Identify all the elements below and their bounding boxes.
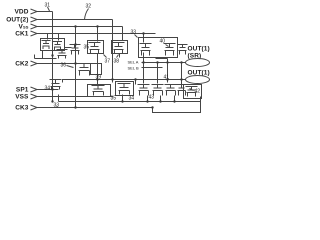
svg-text:35: 35 bbox=[111, 96, 117, 102]
transistor 37 enclosure bbox=[88, 41, 104, 54]
transistor 42 device bbox=[186, 87, 198, 97]
transistor box below SEL labels bbox=[116, 82, 134, 96]
wire stub box31 to node A bbox=[42, 51, 44, 59]
svg-text:33: 33 bbox=[54, 103, 60, 109]
label 39 bbox=[96, 75, 102, 81]
input chevron SP1 bbox=[31, 87, 38, 92]
leader 42 bbox=[190, 89, 194, 91]
wire SEL A line y62 bbox=[142, 62, 186, 64]
node SP1 label bbox=[16, 87, 29, 94]
wire stub x160 bbox=[160, 96, 162, 102]
wire vertical x75 bbox=[75, 27, 77, 108]
leader 31 bbox=[48, 7, 50, 11]
wire vertical x112 (OUT(2) column) bbox=[112, 20, 114, 83]
wire vertical x122 (Vss drop) bbox=[122, 27, 124, 41]
leader 40 bbox=[166, 45, 169, 47]
input chevron VDD bbox=[31, 9, 38, 14]
svg-text:VSS: VSS bbox=[19, 24, 29, 31]
wire vertical x52 (VDD/SP1 column) bbox=[52, 12, 54, 102]
svg-text:SP1: SP1 bbox=[16, 87, 29, 94]
wire stub x174 bbox=[174, 96, 176, 102]
label 34b bbox=[129, 96, 135, 102]
junction (181,62) bbox=[180, 61, 182, 63]
junction (135,79) bbox=[134, 78, 136, 80]
wire vertical x157 bbox=[157, 63, 159, 84]
junction (75,107) bbox=[74, 106, 76, 108]
junction (52,101) bbox=[51, 100, 53, 102]
label SEL A bbox=[128, 60, 139, 65]
wire box31 to Q4 gate bbox=[65, 47, 72, 49]
junction (157,62) bbox=[156, 61, 158, 63]
transistor 39 cluster bbox=[78, 64, 91, 76]
junction (147,101) bbox=[146, 100, 148, 102]
transistor Q31b bbox=[53, 42, 62, 51]
svg-text:36: 36 bbox=[61, 63, 67, 69]
wire vertical x97 bbox=[97, 27, 99, 42]
junction (75,44) bbox=[74, 43, 76, 45]
wire VSS bbox=[37, 96, 113, 98]
transistor 38 device bbox=[113, 43, 125, 54]
junction (143,62) bbox=[142, 61, 144, 63]
label 36 bbox=[61, 63, 67, 69]
wire stub under device 38 bbox=[119, 54, 121, 58]
label (SR) bbox=[188, 53, 202, 60]
output oval OUT(1)[SR] bbox=[186, 59, 210, 67]
leader 38 bbox=[117, 55, 119, 58]
transistor Q4 at x75 bbox=[70, 45, 81, 55]
svg-text:35: 35 bbox=[84, 45, 90, 51]
wire stub x122 to bus bbox=[122, 95, 124, 102]
wire vertical x143 upper bbox=[143, 34, 145, 43]
junction dots bbox=[51, 25, 182, 108]
junction (174,101) bbox=[173, 100, 175, 102]
input chevron Vss bbox=[31, 24, 38, 29]
label OUT(1) bottom bbox=[188, 70, 210, 77]
junction (160,101) bbox=[159, 100, 161, 102]
input chevron CK2 bbox=[31, 61, 38, 66]
node CK2 label bbox=[15, 61, 29, 68]
node OUT(2) label bbox=[6, 17, 28, 24]
svg-text:42: 42 bbox=[195, 89, 201, 95]
junction (122,101) bbox=[121, 100, 123, 102]
input chevron OUT(2) bbox=[31, 17, 38, 22]
junction (52,55) bbox=[51, 54, 53, 56]
transistor 41b device bbox=[177, 85, 187, 96]
junction (181,79) bbox=[180, 78, 182, 80]
wire VDD bbox=[37, 11, 53, 13]
transistor 42 box bbox=[184, 85, 202, 99]
junction (167,62) bbox=[166, 61, 168, 63]
junction (75,26) bbox=[74, 25, 76, 27]
svg-text:33: 33 bbox=[131, 30, 137, 36]
wire vertical x143 lower bbox=[143, 53, 145, 84]
svg-text:OUT(2): OUT(2) bbox=[6, 17, 28, 24]
label 33 bbox=[131, 30, 137, 36]
transistor 39 partner box bbox=[91, 64, 102, 75]
output oval OUT(1) bbox=[186, 76, 210, 84]
svg-text:SEL B: SEL B bbox=[128, 66, 140, 71]
block 31 box bbox=[41, 39, 65, 51]
label SEL B bbox=[128, 66, 140, 71]
transistor 36 bbox=[57, 50, 68, 59]
label 37 bbox=[105, 59, 111, 65]
junction (143,33) bbox=[142, 32, 144, 34]
label 43 bbox=[149, 95, 155, 101]
leader 32 bbox=[85, 9, 89, 20]
wire CK3 elbow bbox=[153, 97, 201, 113]
wire Vss bbox=[37, 26, 123, 28]
transistor 43 right device bbox=[152, 85, 164, 96]
wire vertical x181 bbox=[181, 63, 183, 85]
input chevron CK3 bbox=[31, 105, 38, 110]
leader 36 bbox=[67, 66, 74, 68]
svg-text:43: 43 bbox=[149, 95, 155, 101]
transistor 37 device bbox=[89, 43, 101, 54]
leader 33 bbox=[135, 35, 138, 38]
leader 37 bbox=[104, 55, 107, 58]
wire vertical x167 bbox=[167, 59, 169, 83]
label 32 bbox=[86, 4, 92, 10]
wire OUT(2) bbox=[37, 19, 113, 21]
node CK1 label bbox=[15, 31, 29, 38]
junction (52,89) bbox=[51, 88, 53, 90]
label 34 bbox=[45, 86, 51, 92]
label 41 bbox=[164, 75, 170, 81]
transistor 35 box bbox=[88, 85, 111, 97]
label 38 bbox=[114, 59, 120, 65]
transistor 38 enclosure bbox=[112, 41, 128, 54]
junction (75,63) bbox=[74, 62, 76, 64]
transistor 34 bbox=[50, 80, 62, 90]
svg-text:CK1: CK1 bbox=[15, 31, 29, 38]
svg-text:VSS: VSS bbox=[15, 94, 29, 101]
wire CK3 bbox=[37, 107, 153, 109]
svg-text:CK2: CK2 bbox=[15, 61, 29, 68]
wire y58 stub to output bbox=[156, 58, 168, 60]
node VSS label bbox=[15, 94, 29, 101]
label 35 bbox=[111, 96, 117, 102]
input chevron VSS bbox=[31, 94, 38, 99]
junction (97,79) bbox=[96, 78, 98, 80]
block 40 box bbox=[139, 38, 178, 58]
label 40 bbox=[160, 39, 166, 45]
input chevron CK1 bbox=[31, 31, 38, 36]
transistor output buffer right of box 40 bbox=[178, 45, 188, 55]
transistor in box 40 right bbox=[164, 44, 176, 56]
svg-text:CK3: CK3 bbox=[15, 105, 29, 112]
wire node A horizontal y58 left bbox=[35, 55, 57, 59]
transistor Q31a bbox=[42, 41, 51, 50]
junction (167,79) bbox=[166, 78, 168, 80]
wire stub x135 node B bbox=[135, 80, 137, 85]
transistor in box 40 left bbox=[140, 44, 152, 56]
wire SP1 bbox=[37, 89, 59, 91]
wire bus y101 bbox=[59, 95, 201, 102]
wire stub CK1 to box31 gate a bbox=[47, 34, 49, 40]
wire node B horizontal y79 bbox=[63, 80, 186, 83]
svg-text:38: 38 bbox=[114, 59, 120, 65]
label OUT(1) top bbox=[188, 46, 210, 53]
svg-text:OUT(1): OUT(1) bbox=[188, 46, 210, 53]
wire stub x97 node B bbox=[97, 80, 99, 85]
svg-text:SEL A: SEL A bbox=[128, 60, 139, 65]
transistor device in SEL box bbox=[118, 84, 131, 95]
svg-text:34: 34 bbox=[129, 96, 135, 102]
svg-text:40: 40 bbox=[160, 39, 166, 45]
junction (152,107) bbox=[151, 106, 153, 108]
wire stub CK1 to box31 gate b bbox=[58, 34, 60, 41]
junction (97,26) bbox=[96, 25, 98, 27]
label 31 bbox=[45, 3, 51, 9]
label 42 bbox=[195, 89, 201, 95]
svg-text:37: 37 bbox=[105, 59, 111, 65]
transistor 43 left device bbox=[138, 85, 150, 96]
wire CK1 bbox=[37, 33, 156, 35]
transistor 41 device bbox=[165, 85, 177, 96]
node CK3 label bbox=[15, 105, 29, 112]
node VDD label bbox=[14, 9, 28, 16]
svg-text:34: 34 bbox=[45, 86, 51, 92]
leader 33b bbox=[57, 107, 58, 108]
label 35 upper bbox=[84, 45, 90, 51]
node Vss label bbox=[19, 24, 29, 31]
junction (112,79) bbox=[111, 78, 113, 80]
transistor 35 device bbox=[92, 86, 105, 96]
wire vertical x97 device37 to node B bbox=[97, 54, 99, 80]
wire CK2 bbox=[37, 63, 80, 65]
label 33b near CK3 bbox=[54, 103, 60, 109]
wire stub x147 bbox=[147, 96, 149, 102]
wire SEL B line y67 bbox=[142, 67, 163, 69]
svg-text:VDD: VDD bbox=[14, 9, 28, 16]
